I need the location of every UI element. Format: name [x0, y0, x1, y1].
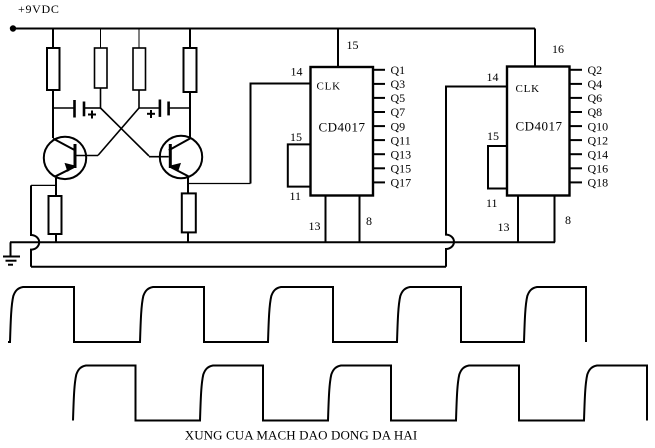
svg-text:Q9: Q9: [391, 119, 406, 133]
U1 pin Q5 stub: [373, 97, 385, 99]
resistor R5 emitter Q1: [55, 178, 57, 196]
svg-text:Q4: Q4: [588, 77, 603, 91]
wire right vertical with hop to CLK2: [446, 87, 507, 267]
svg-text:Q17: Q17: [391, 176, 412, 190]
U1 pin15-pin11 loop: [288, 144, 311, 186]
svg-text:Q11: Q11: [391, 133, 411, 147]
resistor R4: [189, 29, 191, 49]
svg-text:Q13: Q13: [391, 147, 412, 161]
svg-text:15: 15: [347, 38, 359, 52]
svg-text:16: 16: [552, 42, 564, 56]
U2 pin Q2 stub: [570, 69, 583, 71]
svg-text:15: 15: [487, 129, 499, 143]
capacitor C1: [53, 100, 101, 118]
wire left vertical with hop over ground bus: [31, 185, 39, 266]
ground symbol: [3, 242, 20, 264]
svg-text:15: 15: [290, 130, 302, 144]
svg-text:Q8: Q8: [588, 105, 603, 119]
capacitor C2: [139, 100, 190, 117]
svg-text:11: 11: [290, 189, 302, 203]
svg-text:XUNG CUA MACH DAO DONG DA HAI: XUNG CUA MACH DAO DONG DA HAI: [185, 428, 418, 443]
svg-text:CLK: CLK: [317, 81, 341, 93]
U1 pin 8 wire: [359, 196, 361, 243]
wire cross-couple C1 node to Q2 base: [101, 108, 150, 156]
U1 pin Q13 stub: [373, 153, 385, 155]
waveform 2: [73, 366, 647, 421]
IC U2 CD4017 body: [507, 67, 570, 196]
ground bus: [10, 241, 555, 243]
U1 pin Q9 stub: [373, 125, 385, 127]
U2 pin15-pin11 loop: [488, 146, 507, 189]
svg-text:14: 14: [291, 65, 303, 79]
resistor R3: [138, 29, 140, 49]
C2 polarity + sign: [147, 110, 155, 118]
svg-text:11: 11: [486, 196, 498, 210]
U2 pin Q6 stub: [570, 97, 583, 99]
svg-text:Q6: Q6: [588, 91, 603, 105]
U2 pin 16 top wire: [534, 29, 536, 67]
U2 pin Q12 stub: [570, 139, 583, 141]
svg-text:Q2: Q2: [588, 63, 603, 77]
wire CLK1 vertical segment to U1 pin 14: [251, 84, 311, 184]
svg-text:Q7: Q7: [391, 105, 406, 119]
waveform 1: [8, 287, 586, 342]
wire Q2 emitter to CLK1 horizontal segment: [188, 183, 251, 185]
U1 pin Q1 stub: [373, 69, 385, 71]
svg-text:13: 13: [309, 219, 321, 233]
svg-text:Q15: Q15: [391, 162, 412, 176]
svg-text:CLK: CLK: [516, 83, 540, 95]
svg-text:Q12: Q12: [588, 133, 609, 147]
IC U1 CD4017 body: [311, 67, 374, 196]
svg-text:Q1: Q1: [391, 63, 406, 77]
wire Q1 emitter to left branch: [31, 184, 56, 186]
U1 pin Q7 stub: [373, 111, 385, 113]
svg-text:Q14: Q14: [588, 147, 609, 161]
node VCC junction dot: [10, 25, 16, 31]
wire +9V rail: [13, 28, 535, 30]
svg-text:Q10: Q10: [588, 119, 609, 133]
svg-text:14: 14: [487, 70, 499, 84]
resistor R1: [52, 29, 54, 49]
U1 pin Q3 stub: [373, 83, 385, 85]
transistor Q2: [149, 108, 202, 178]
wire lower bus to CLK2: [31, 266, 446, 268]
svg-text:CD4017: CD4017: [319, 120, 366, 135]
resistor R2: [100, 29, 102, 49]
U1 pin Q15 stub: [373, 167, 385, 169]
U2 pin Q14 stub: [570, 153, 583, 155]
svg-text:8: 8: [565, 213, 571, 227]
svg-text:+9VDC: +9VDC: [18, 2, 60, 16]
U1 pin Q11 stub: [373, 139, 385, 141]
svg-text:Q3: Q3: [391, 77, 406, 91]
wire cross-couple C2 node to Q1 base: [98, 108, 139, 155]
U2 pin Q16 stub: [570, 167, 583, 169]
U1 pin 16 top wire: [337, 29, 339, 68]
svg-text:CD4017: CD4017: [516, 119, 563, 134]
U2 pin Q18 stub: [570, 181, 583, 183]
U1 pin Q17 stub: [373, 181, 385, 183]
U2 pin Q8 stub: [570, 111, 583, 113]
svg-text:Q5: Q5: [391, 91, 406, 105]
transistor Q1: [44, 108, 98, 179]
svg-text:8: 8: [366, 214, 372, 228]
svg-text:Q16: Q16: [588, 162, 609, 176]
C1 polarity + sign: [88, 111, 96, 119]
svg-text:13: 13: [498, 220, 510, 234]
U2 pin Q10 stub: [570, 125, 583, 127]
svg-text:Q18: Q18: [588, 176, 609, 190]
U2 pin 8 wire: [554, 196, 556, 243]
U2 pin Q4 stub: [570, 83, 583, 85]
U1 pin 13 wire: [325, 196, 327, 243]
U2 pin 13 wire: [517, 196, 519, 243]
resistor R6 emitter Q2: [187, 177, 189, 193]
